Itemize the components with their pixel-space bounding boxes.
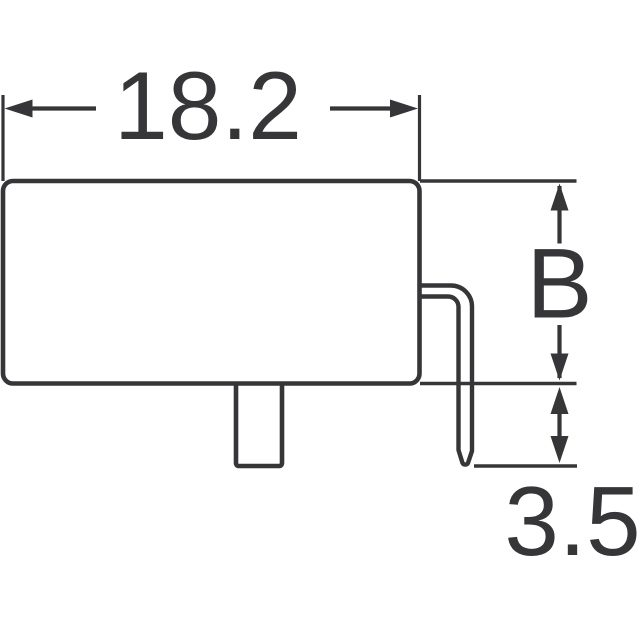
- extension line top right (body top): [420, 179, 577, 182]
- svg-text:3.5: 3.5: [504, 466, 640, 576]
- dimension line 18.2 left segment: [30, 106, 96, 110]
- dimension B lower arrow: [557, 325, 561, 378]
- extension line left (for 18.2): [1, 95, 4, 181]
- extension line middle right (body bottom): [420, 382, 577, 385]
- dimension 3.5 arrows: [557, 410, 561, 440]
- extension line bottom right (lead tip): [474, 464, 577, 467]
- arrowhead left: [5, 100, 33, 118]
- dimension line 18.2 right segment: [330, 106, 392, 110]
- dimension B upper arrow: [557, 186, 561, 244]
- bent lead / pin on right: [420, 286, 472, 465]
- component body (rounded rectangle): [3, 181, 420, 384]
- mounting tab below body: [236, 383, 282, 466]
- arrowhead right: [390, 100, 418, 118]
- svg-text:18.2: 18.2: [114, 53, 302, 160]
- extension line right (for 18.2): [418, 95, 421, 181]
- svg-text:B: B: [526, 228, 592, 339]
